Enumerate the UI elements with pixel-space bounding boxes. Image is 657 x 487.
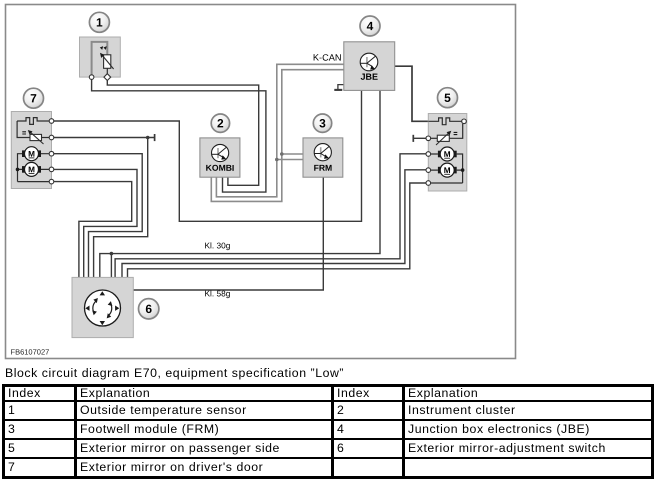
heater terminal circle bbox=[462, 119, 467, 124]
svg-text:Kl. 30g: Kl. 30g bbox=[204, 240, 230, 250]
svg-text:M: M bbox=[444, 150, 451, 159]
wire: driver mirror T4 down to adjustment switch bbox=[52, 169, 138, 277]
internal loop wire bbox=[92, 42, 108, 77]
diagonal arrow across resistor bbox=[102, 55, 114, 69]
wire: passenger mirror T2 stub to terminator bbox=[413, 137, 428, 139]
wire: driver mirror T2 to terminator and branch down to switch bbox=[52, 137, 155, 139]
terminal diamond right bbox=[104, 74, 111, 81]
rotation arc arrows bbox=[93, 301, 112, 315]
wire: JBE right output to passenger mirror heater bbox=[395, 66, 429, 121]
wire: temperature sensor left terminal to KOMBI (outer loop) bbox=[92, 77, 266, 192]
wire: switch to passenger mirror T4 bbox=[122, 170, 428, 278]
thermistor body bbox=[437, 135, 449, 141]
junction box electronics JBE (component 4) bbox=[344, 42, 395, 91]
node: motor bus junction dot bbox=[461, 168, 465, 172]
wire: Kl. 30g from JBE bottom-right to switch bbox=[100, 90, 380, 277]
wire: Kl. 58g from switch to FRM bottom bbox=[133, 177, 323, 290]
svg-text:K-CAN: K-CAN bbox=[313, 53, 342, 63]
node: junction dot Kl. 30g branch bbox=[110, 252, 114, 256]
svg-text:7: 7 bbox=[30, 91, 37, 105]
direction triangles bbox=[100, 291, 105, 295]
index ball 7 bbox=[24, 88, 44, 108]
wire: temperature sensor right terminal to KOMBI (inner loop) bbox=[107, 77, 258, 185]
terminal circles on left edge bbox=[426, 136, 431, 141]
exterior mirror passenger side box (component 5) bbox=[426, 114, 467, 192]
svg-text:M: M bbox=[28, 150, 35, 159]
svg-text:3: 3 bbox=[319, 116, 326, 130]
index ball 4 bbox=[360, 16, 380, 36]
terminal circles on right edge bbox=[49, 119, 54, 124]
svg-text:M: M bbox=[28, 165, 35, 174]
wire: FRM K-CAN upper lead bbox=[282, 153, 303, 155]
wire: driver mirror T5 down to adjustment switch bbox=[52, 182, 132, 278]
thermistor body bbox=[30, 134, 42, 140]
svg-text:1: 1 bbox=[96, 15, 103, 29]
svg-text:5: 5 bbox=[444, 91, 451, 105]
frame border of diagram bbox=[6, 5, 516, 359]
series bus heater-thermistor bbox=[449, 124, 462, 139]
index ball 5 bbox=[438, 88, 458, 108]
double influence arrows bbox=[100, 46, 103, 50]
wire: T2 branch down to adjustment switch bbox=[94, 138, 148, 278]
svg-text:FB6107027: FB6107027 bbox=[10, 348, 49, 357]
bottom row to T5 bbox=[428, 182, 462, 184]
index ball 3 bbox=[313, 114, 331, 132]
svg-text:KOMBI: KOMBI bbox=[206, 163, 235, 173]
terminator bar on passenger mirror T2 wire bbox=[412, 135, 414, 142]
series bus heater-thermistor bbox=[17, 121, 30, 138]
index ball 6 bbox=[139, 299, 159, 319]
node: junction dot K-CAN upper/FRM bbox=[280, 152, 284, 156]
exterior mirror-adjustment switch box (component 6) bbox=[72, 277, 133, 337]
temperature mark bbox=[22, 132, 26, 134]
instrument cluster box KOMBI (component 2) bbox=[200, 138, 240, 177]
ECU symbol bbox=[360, 53, 378, 71]
svg-text:Kl. 58g: Kl. 58g bbox=[204, 288, 230, 298]
wire: K-CAN bus KOMBI to JBE (lower, via FRM upper tap) bbox=[211, 70, 343, 202]
motor 2 bbox=[18, 162, 52, 176]
heater element bbox=[428, 118, 462, 125]
wire: driver mirror T3 down to adjustment switch bbox=[52, 154, 143, 278]
index ball 2 bbox=[211, 114, 229, 132]
wire: Kl. 30g branch into switch bbox=[110, 254, 112, 278]
ECU symbol bbox=[212, 144, 229, 161]
node: junction dot driver mirror T2 branch bbox=[146, 136, 150, 140]
svg-text:2: 2 bbox=[217, 116, 224, 130]
bottom row to T5 bbox=[18, 181, 52, 183]
wire: switch to passenger mirror T5 bbox=[128, 183, 429, 277]
wire: K-CAN bus KOMBI to JBE (upper, via FRM lower tap) bbox=[216, 64, 343, 197]
index ball 1 bbox=[89, 12, 109, 32]
svg-text:M: M bbox=[444, 166, 451, 175]
svg-text:FRM: FRM bbox=[314, 163, 333, 173]
heater element bbox=[17, 118, 51, 125]
ground symbol at JBE bbox=[334, 85, 344, 90]
svg-text:4: 4 bbox=[367, 19, 374, 33]
svg-text:JBE: JBE bbox=[360, 72, 378, 82]
terminator bar on driver mirror T2 wire bbox=[154, 134, 156, 141]
motor 1 bbox=[428, 147, 462, 183]
diagonal arrow across thermistor bbox=[30, 132, 43, 144]
diagonal arrow across thermistor bbox=[436, 133, 449, 145]
wire: switch to passenger mirror T3 bbox=[115, 154, 428, 278]
NTC resistor body bbox=[104, 55, 111, 69]
ECU symbol bbox=[314, 144, 331, 161]
wire: driver mirror T1 heater to JBE bottom-left bbox=[52, 90, 362, 221]
temperature mark bbox=[454, 132, 458, 134]
wire: FRM K-CAN lower lead bbox=[277, 159, 303, 161]
motor 1 bbox=[18, 147, 52, 182]
node: junction dot K-CAN lower/FRM bbox=[275, 158, 279, 162]
footwell module box FRM (component 3) bbox=[303, 138, 343, 177]
terminal circle left bbox=[89, 75, 94, 80]
motor 2 bbox=[428, 163, 462, 177]
node: motor bus junction dot bbox=[16, 168, 20, 172]
outside temperature sensor box (component 1) bbox=[80, 37, 121, 80]
svg-text:6: 6 bbox=[145, 302, 152, 316]
exterior mirror driver's door box (component 7) bbox=[11, 112, 54, 189]
